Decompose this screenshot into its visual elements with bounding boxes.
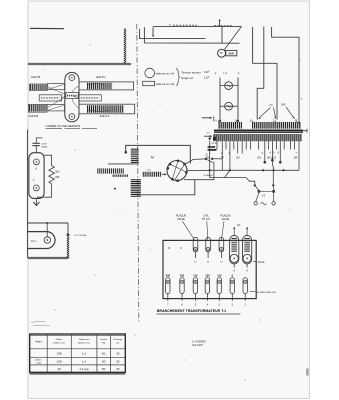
- frame centre stadium: [65, 72, 79, 121]
- wire hook above capacitor: [36, 138, 42, 143]
- terminal arrow secondary left: [204, 135, 211, 137]
- svg-text:AGE P.G: AGE P.G: [96, 76, 106, 79]
- svg-text:25: 25: [116, 359, 120, 363]
- measurement table: [30, 334, 126, 372]
- coil L3: [143, 172, 162, 177]
- svg-text:242 A: 242 A: [211, 142, 217, 145]
- screen cut line vertical bottom: [67, 237, 69, 259]
- svg-text:Valeurs en mA: Valeurs en mA: [156, 82, 175, 86]
- ground: [33, 202, 39, 206]
- coil L4: [131, 179, 141, 197]
- svg-text:110º: 110º: [204, 70, 209, 74]
- svg-text:260: 260: [281, 103, 286, 107]
- svg-text:2 A: 2 A: [269, 103, 273, 107]
- lead wires to centre: [47, 86, 66, 94]
- terminal lug 10: [219, 237, 224, 252]
- wire right B: [257, 27, 264, 120]
- wire to ground: [35, 198, 37, 205]
- bus wire: [210, 169, 299, 171]
- wire right C: [272, 27, 299, 123]
- node PU distal: [67, 223, 69, 234]
- meter M2: [220, 105, 238, 107]
- switch S2 contacts: [205, 158, 207, 160]
- valve lug left: [230, 236, 239, 264]
- transformer T1 primary winding: [219, 122, 243, 129]
- tap wires: [209, 141, 211, 171]
- pointer to SUP: [224, 27, 241, 50]
- svg-text:20: 20: [58, 367, 62, 371]
- fuse wire F right: [237, 78, 239, 122]
- winding pin stems: [218, 121, 220, 123]
- svg-text:blindés et nus: blindés et nus: [78, 341, 90, 344]
- lead frame top-left: [47, 84, 64, 90]
- centre connector box: [66, 93, 79, 99]
- wire to selector right: [272, 170, 274, 185]
- svg-text:C: C: [180, 247, 182, 250]
- bottom lug 3: [217, 278, 221, 294]
- label VALVE: [253, 260, 257, 263]
- svg-text:110: 110: [236, 157, 240, 160]
- wire box right: [79, 95, 101, 101]
- svg-text:T: T: [33, 178, 35, 182]
- svg-text:L 2: L 2: [224, 71, 228, 75]
- svg-text:Avant: Avant: [35, 341, 42, 344]
- wire socket return: [184, 162, 214, 180]
- svg-text:ÉCRAN STATIQUE: ÉCRAN STATIQUE: [257, 291, 276, 294]
- svg-text:Réglé sur: Réglé sur: [181, 76, 193, 80]
- svg-text:5Ω2: 5Ω2: [55, 172, 60, 174]
- svg-text:P.U. DISTAL: P.U. DISTAL: [75, 234, 88, 237]
- svg-text:blindés et nus: blindés et nus: [53, 341, 65, 344]
- svg-text:rouge: rouge: [36, 362, 42, 364]
- callout box SUP: [226, 50, 237, 55]
- svg-text:D: D: [168, 247, 170, 250]
- svg-text:M: M: [151, 156, 154, 160]
- legend brace: [176, 69, 180, 86]
- svg-text:VALVE: VALVE: [258, 261, 266, 264]
- pickup body front: [29, 153, 44, 199]
- meter M1: [220, 85, 238, 87]
- bottom lug 4: [205, 278, 209, 294]
- svg-text:N,0400μF: N,0400μF: [204, 175, 214, 177]
- svg-text:500pF: 500pF: [41, 146, 48, 148]
- choke L1: [131, 149, 139, 163]
- label ecran statique: [250, 290, 257, 292]
- svg-text:± 2: ± 2: [82, 352, 86, 356]
- bottom lug 7: [166, 278, 170, 294]
- handwritten note: [208, 146, 216, 148]
- terminal board T1: [163, 240, 256, 298]
- arrow up right: [246, 228, 248, 235]
- callout N°: [218, 49, 226, 57]
- wire socket bottom loop: [136, 180, 195, 195]
- coil bar bottom-right: [79, 104, 135, 114]
- pickup PU: [28, 232, 55, 249]
- svg-text:Tension secteur: Tension secteur: [181, 70, 201, 74]
- transformer T1 secondary winding: [214, 134, 303, 141]
- fuse wire F left: [219, 78, 221, 122]
- wire box left: [39, 95, 61, 101]
- svg-text:(C): (C): [237, 224, 241, 227]
- svg-text:Tolérances: Tolérances: [79, 338, 90, 341]
- bottom lug 6: [180, 278, 184, 294]
- svg-text:50: 50: [102, 367, 106, 371]
- svg-text:Décharge: Décharge: [113, 338, 123, 341]
- secondary lead-in dots: [209, 137, 211, 139]
- wire to selector left: [210, 170, 255, 185]
- chassis box M: [126, 145, 191, 163]
- svg-text:Tension: Tension: [100, 339, 108, 341]
- terminal lug 11: [206, 237, 211, 252]
- svg-text:235: 235: [180, 274, 185, 278]
- valve lug right: [243, 236, 252, 264]
- svg-text:60: 60: [102, 352, 106, 356]
- svg-text:SUP.: SUP.: [228, 51, 234, 55]
- screen cut line horizontal top: [28, 63, 131, 65]
- svg-text:A: A: [35, 166, 37, 170]
- legend circle mV: [145, 68, 155, 78]
- svg-text:0,005: 0,005: [41, 143, 47, 145]
- svg-text:BRANCHEMENT TRANSFORMATEUR T: BRANCHEMENT TRANSFORMATEUR T.1: [157, 309, 226, 313]
- wire: [108, 163, 139, 165]
- svg-text:kHz: kHz: [102, 342, 106, 344]
- svg-text:30: 30: [116, 352, 120, 356]
- coil bar top-right: [79, 82, 134, 90]
- page edge tick: [306, 368, 308, 375]
- screen cut line horizontal bottom: [28, 257, 68, 259]
- screen cut line vertical top: [124, 29, 126, 64]
- svg-text:VALVE: VALVE: [177, 218, 185, 221]
- svg-text:25: 25: [116, 367, 120, 371]
- antenna stub: [219, 21, 221, 27]
- coil bar bottom-left: [28, 104, 47, 112]
- wire socket to switch: [185, 159, 206, 165]
- svg-text:50: 50: [102, 359, 106, 363]
- terminal arrow primary left: [202, 117, 211, 119]
- screw hole top: [69, 75, 75, 81]
- arrow up left: [233, 228, 235, 235]
- legend rect mA: [143, 81, 155, 85]
- svg-text:G. POIRIER: G. POIRIER: [192, 340, 206, 343]
- voltage selector S1: [254, 184, 256, 186]
- wire top-left segment: [30, 27, 64, 29]
- svg-text:± 2: ± 2: [82, 359, 86, 363]
- svg-text:AGE G.G: AGE G.G: [100, 115, 110, 118]
- resistor R1: [49, 166, 55, 184]
- svg-text:150: 150: [294, 157, 299, 160]
- fold line (dash-dot centre): [137, 24, 139, 322]
- tap end dots: [264, 161, 267, 164]
- wire to resistor: [44, 155, 52, 165]
- svg-text:± 4 rge: ± 4 rge: [79, 367, 89, 371]
- node dot: [114, 188, 116, 190]
- svg-text:110: 110: [193, 274, 198, 278]
- coil bar top-left: [29, 84, 47, 91]
- pencil marks: [31, 321, 46, 324]
- svg-text:CADRE VU DE DESSUS: CADRE VU DE DESSUS: [46, 124, 81, 128]
- bottom lug 2: [230, 278, 234, 294]
- svg-text:195: 195: [57, 352, 62, 356]
- chassis outline nest: [140, 29, 206, 39]
- terminal stub 1: [302, 130, 308, 132]
- svg-text:Câbles: Câbles: [56, 339, 64, 341]
- svg-text:AGE P.B: AGE P.B: [31, 76, 41, 79]
- terminal A: [34, 159, 40, 165]
- svg-text:P.U.: P.U.: [31, 239, 36, 243]
- svg-text:130: 130: [205, 274, 210, 278]
- wire resistor bottom: [37, 184, 52, 197]
- wire socket to bus: [188, 169, 210, 171]
- terminal T: [34, 185, 40, 191]
- wire to PU: [27, 222, 68, 224]
- svg-text:Ω25: Ω25: [55, 177, 60, 179]
- lead frame bottom-left: [47, 105, 65, 111]
- left bus wire: [26, 130, 28, 259]
- terminal lug 12: [193, 237, 198, 252]
- secondary tap stubs: [217, 141, 295, 150]
- svg-text:CIA 13/67: CIA 13/67: [192, 344, 204, 347]
- svg-text:110º: 110º: [204, 76, 209, 80]
- wire: [35, 146, 37, 153]
- switch blade: [272, 160, 273, 170]
- screw hole bottom: [69, 114, 75, 120]
- svg-text:Arrière: Arrière: [35, 359, 42, 362]
- svg-text:250: 250: [166, 274, 171, 278]
- bottom lug 1: [243, 278, 247, 294]
- svg-text:Valeurs en mV: Valeurs en mV: [156, 71, 175, 75]
- svg-text:160 (120: 160 (120: [267, 157, 277, 160]
- wire right A: [253, 27, 277, 120]
- svg-text:120: 120: [57, 359, 62, 363]
- coil L2: [97, 168, 124, 173]
- transformer core: [214, 129, 303, 131]
- svg-text:VALVE: VALVE: [222, 218, 230, 221]
- capacitor C1: [33, 142, 40, 144]
- bottom lug 5: [193, 278, 197, 294]
- tube socket V1: [167, 161, 187, 181]
- svg-text:HT G P: HT G P: [202, 218, 211, 221]
- svg-text:AGE B.B: AGE B.B: [29, 115, 39, 118]
- svg-text:110: 110: [217, 274, 222, 278]
